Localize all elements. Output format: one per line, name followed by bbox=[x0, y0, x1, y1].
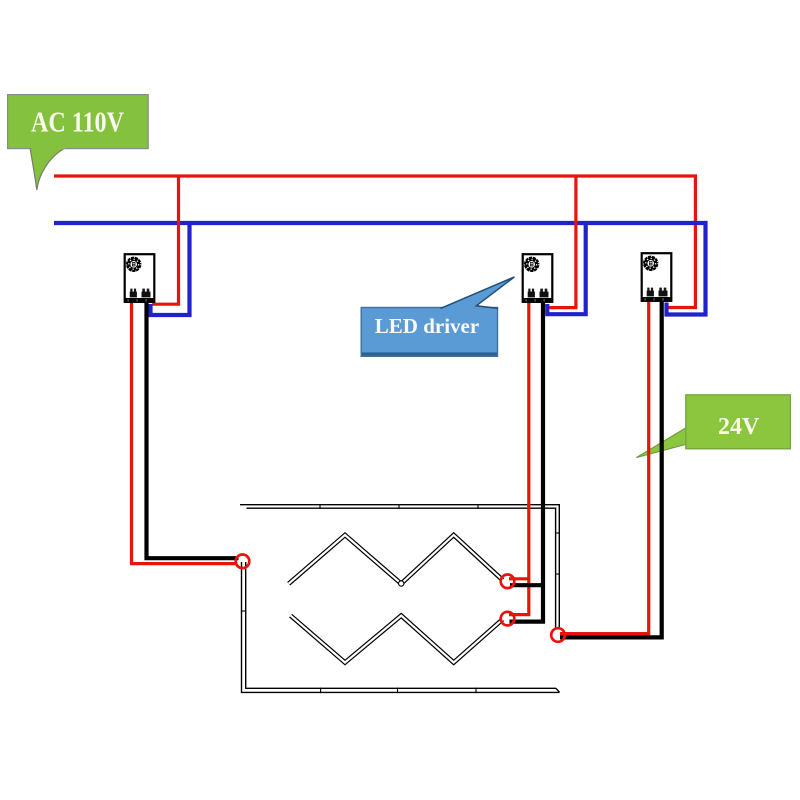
LED driver D1 bbox=[124, 254, 154, 303]
callout AC 110V joint patch bbox=[32, 147, 66, 150]
wire driver D1 red output bbox=[132, 302, 238, 564]
LED strip S2 ticks bbox=[241, 611, 476, 693]
wire driver D2 black branch to T1 bbox=[510, 583, 543, 587]
LED strip S3 inner white bbox=[289, 535, 503, 584]
wire driver D2 red branch to T1 bbox=[509, 577, 529, 580]
LED strip S2 end cap bbox=[556, 688, 560, 692]
wire driver D2 red output bbox=[509, 302, 529, 615]
wire red drop to driver D2 bbox=[549, 176, 576, 308]
wire driver D3 red output bbox=[560, 302, 649, 634]
wire driver D2 black output bbox=[510, 302, 544, 622]
wire driver D1 black output bbox=[147, 302, 239, 558]
wire driver D3 black output bbox=[560, 302, 662, 637]
joint node on strip S3 bbox=[399, 581, 404, 586]
terminal T2 strip S4 feed bbox=[501, 612, 515, 626]
LED strip S2 outer line bbox=[242, 562, 560, 692]
LED strip S1 ticks bbox=[320, 504, 560, 574]
callout 24V box bbox=[686, 395, 791, 449]
terminal T3 strip S1 feed bbox=[551, 628, 565, 642]
LED strip S4 inner white bbox=[291, 616, 503, 663]
svg-text:LED driver: LED driver bbox=[375, 314, 479, 338]
LED strip S2 inner line bbox=[246, 562, 556, 688]
svg-text:AC 110V: AC 110V bbox=[31, 108, 124, 139]
LED driver D2 bbox=[522, 254, 552, 303]
callout LED driver bottom shade bbox=[362, 352, 497, 355]
terminal T1 strip S3 feed bbox=[501, 575, 515, 589]
wire AC live red rail bbox=[54, 176, 695, 308]
LED strip S3 upper zigzag outline bbox=[289, 535, 503, 584]
LED driver D3 bbox=[641, 253, 671, 302]
callout AC 110V box bbox=[8, 95, 149, 149]
callout LED driver tail outline bbox=[441, 277, 515, 309]
callout 24V tail bbox=[636, 428, 686, 458]
callout LED driver box bbox=[361, 308, 497, 357]
callout LED driver tail bbox=[441, 277, 515, 309]
wire red drop to driver D1 bbox=[152, 176, 178, 304]
wire AC neutral blue rail bbox=[54, 223, 706, 315]
LED strip S1 inner line bbox=[247, 508, 556, 629]
wire blue drop to driver D1 bbox=[151, 223, 190, 315]
terminal T0 strip S2 feed bbox=[236, 555, 250, 569]
svg-text:24V: 24V bbox=[718, 414, 760, 440]
LED strip S1 outer line bbox=[240, 505, 559, 629]
LED strip S4 lower zigzag outline bbox=[291, 616, 503, 663]
callout AC 110V tail bbox=[30, 148, 66, 191]
wire blue drop to driver D2 bbox=[547, 223, 585, 314]
